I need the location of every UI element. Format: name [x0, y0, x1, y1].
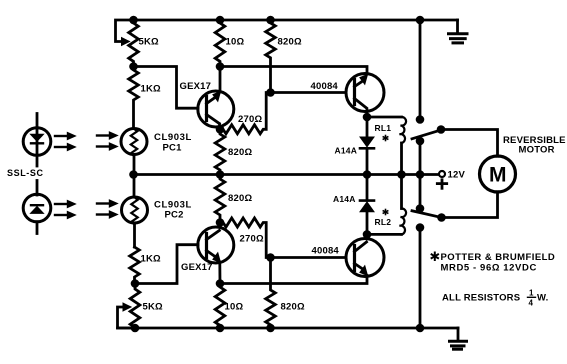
svg-text:PC2: PC2: [165, 210, 184, 221]
node mid rail / PC column: [129, 170, 138, 179]
svg-text:12V: 12V: [448, 170, 466, 181]
wire collector link (top): [220, 67, 367, 74]
node mid rail / diode column: [363, 170, 372, 179]
wire GEX17-2 base: [135, 245, 198, 284]
svg-text:820Ω: 820Ω: [228, 147, 252, 158]
svg-text:PC1: PC1: [163, 143, 183, 154]
node contact SW1 upper: [416, 115, 425, 124]
wire mid rail (+12V): [134, 173, 439, 176]
svg-text:10Ω: 10Ω: [226, 37, 245, 48]
photocell PC2: [122, 175, 148, 248]
svg-text:W.: W.: [537, 293, 548, 304]
node 820/270/base junction (top): [266, 88, 275, 97]
svg-text:820Ω: 820Ω: [278, 37, 302, 48]
wire bottom rail: [118, 327, 459, 330]
svg-text:GEX17: GEX17: [181, 262, 213, 273]
light arrows from lamp 2: [55, 200, 76, 218]
node mid rail / coil column: [397, 170, 406, 179]
resistor 270Ω (top): [220, 93, 266, 134]
node SW2 pole: [437, 213, 446, 222]
svg-text:1KΩ: 1KΩ: [141, 84, 162, 95]
node GEX17-1 collector: [216, 125, 225, 134]
potentiometer 5K (bottom) body: [130, 284, 140, 329]
asterisk mark RL1: [383, 136, 387, 141]
node contact SW2 upper: [416, 204, 425, 213]
light arrows from lamp 1: [55, 132, 76, 150]
resistor 1K (top): [129, 67, 139, 129]
wire motor lower: [442, 192, 498, 218]
light arrows into PC2: [97, 200, 118, 218]
node bottom rail / switch bus: [416, 324, 425, 333]
motor M: [480, 156, 516, 192]
svg-text:CL903L: CL903L: [154, 132, 192, 143]
node 5K/1K junction (top): [129, 62, 138, 71]
svg-text:270Ω: 270Ω: [240, 234, 264, 245]
wire switch bus (upper section): [419, 20, 422, 120]
node mid rail / switch bus: [416, 170, 425, 179]
svg-text:1KΩ: 1KΩ: [141, 254, 162, 265]
svg-text:4: 4: [529, 299, 534, 308]
node bottom rail / 820Ω: [266, 324, 275, 333]
svg-text:5KΩ: 5KΩ: [139, 37, 160, 48]
node top rail / switch bus: [416, 16, 425, 25]
photocell PC1: [121, 129, 147, 175]
node SW1 pole: [437, 125, 446, 134]
resistor 10Ω (top): [215, 20, 225, 67]
light arrows into PC1: [97, 132, 118, 150]
relay contact blade RL1: [412, 130, 441, 139]
svg-text:MOTOR: MOTOR: [519, 145, 555, 156]
node 820/270/base junction (bottom): [266, 253, 275, 262]
terminal 12V: [439, 171, 445, 177]
svg-text:MRD5 - 96Ω 12VDC: MRD5 - 96Ω 12VDC: [441, 262, 537, 273]
svg-text:820Ω: 820Ω: [228, 193, 252, 204]
transistor GEX17 (Q1): [198, 67, 234, 130]
svg-text:GEX17: GEX17: [180, 81, 212, 92]
lamp SSL-SC (upper): [23, 114, 51, 167]
wire GEX17-1 base: [134, 67, 199, 109]
node 40084-2 collector: [363, 230, 372, 239]
lamp SSL-SC (lower): [23, 181, 51, 234]
node below 10Ω: [216, 62, 225, 71]
svg-text:40084: 40084: [312, 246, 340, 257]
resistor 820Ω (bottom outer): [266, 258, 276, 329]
svg-text:RL2: RL2: [375, 217, 392, 227]
svg-text:5KΩ: 5KΩ: [143, 302, 164, 313]
resistor 1K (bottom): [130, 247, 140, 284]
ground (bottom right): [450, 328, 467, 349]
node GEX17-2 collector: [216, 218, 225, 227]
node top rail / 820Ω: [266, 16, 275, 25]
svg-text:10Ω: 10Ω: [225, 302, 244, 313]
node top rail / 5K: [129, 16, 138, 25]
transistor GEX17 (Q2): [198, 223, 234, 284]
svg-text:M: M: [489, 164, 507, 187]
relay coil RL1: [367, 117, 406, 175]
transistor 40084 (Q4): [220, 234, 384, 283]
fraction bar: [528, 296, 536, 298]
potentiometer 5K (top) wiper loop: [116, 20, 134, 46]
node mid rail / 820 center: [216, 170, 225, 179]
note ALL RESISTORS 1/4 W: [442, 289, 548, 308]
svg-text:820Ω: 820Ω: [281, 302, 305, 313]
svg-text:40084: 40084: [311, 81, 339, 92]
asterisk mark RL2: [383, 210, 387, 215]
resistor 270Ω (bottom): [220, 218, 266, 258]
label CL903L PC2: [154, 200, 192, 221]
node bottom rail / 10Ω: [216, 324, 225, 333]
node contact SW2 lower: [416, 223, 425, 232]
diode A14A (D2): [360, 175, 374, 235]
label REVERSIBLE MOTOR: [503, 135, 566, 156]
svg-text:A14A: A14A: [335, 145, 358, 155]
svg-text:270Ω: 270Ω: [238, 114, 262, 125]
node contact SW1 lower: [416, 137, 425, 146]
label CL903L PC1: [154, 132, 192, 154]
resistor 820Ω (top outer): [266, 20, 276, 93]
node bottom rail / 5K: [131, 324, 140, 333]
wire 40084-2 base: [271, 256, 347, 259]
plus sign: [437, 180, 446, 189]
wire motor upper: [441, 130, 498, 157]
svg-text:ALL RESISTORS: ALL RESISTORS: [442, 293, 520, 304]
wire switch bus (lower section): [419, 228, 422, 329]
svg-text:A14A: A14A: [333, 194, 356, 204]
resistor 10Ω (bottom): [215, 284, 225, 329]
note POTTER & BRUMFIELD: [441, 252, 556, 273]
wire 40084-1 base: [271, 91, 347, 94]
wire top rail: [134, 19, 458, 22]
svg-text:RL1: RL1: [375, 123, 392, 133]
ground (top right): [449, 20, 468, 43]
relay coil RL2: [367, 175, 406, 235]
potentiometer 5K (top) body: [129, 20, 139, 67]
node 1K/5K junction (bottom): [131, 279, 140, 288]
diode A14A (D1): [360, 117, 374, 175]
svg-text:1: 1: [529, 289, 534, 298]
svg-text:SSL-SC: SSL-SC: [7, 168, 44, 178]
node top rail / 10Ω: [216, 16, 225, 25]
potentiometer 5K (bottom) wiper loop: [118, 303, 136, 328]
asterisk note mark: [432, 253, 438, 261]
wire switch bus (middle section): [419, 141, 422, 209]
node GEX17-2 emitter junction: [216, 279, 225, 288]
node 40084-1 emitter: [363, 113, 372, 122]
transistor 40084 (Q3): [346, 74, 384, 118]
resistor 820Ω (bottom center): [215, 175, 225, 223]
resistor 820Ω (top center): [215, 129, 225, 174]
relay contact blade RL2: [412, 211, 442, 218]
